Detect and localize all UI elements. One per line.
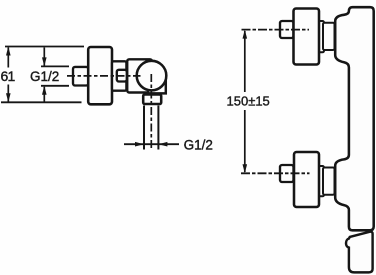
handle knob circle xyxy=(137,61,167,91)
svg-text:150±15: 150±15 xyxy=(227,94,270,109)
G1/2 arrow bottom shaft xyxy=(43,87,45,102)
dim 61 top extension line xyxy=(5,46,84,48)
bottom neck xyxy=(323,168,335,195)
inlet fitting (side view) xyxy=(73,67,88,86)
valve body (side view) xyxy=(127,59,152,92)
dim 150 line upper segment xyxy=(244,31,246,92)
temperature knob (front view) xyxy=(346,232,373,273)
svg-text:G1/2: G1/2 xyxy=(30,69,59,84)
outlet nut xyxy=(143,95,161,105)
dim 150 arrow down xyxy=(243,164,248,173)
outlet pipe right line xyxy=(157,106,159,150)
dim arrow left-pointing xyxy=(158,142,167,147)
outlet vertical centerline xyxy=(150,74,152,150)
adapter square xyxy=(117,70,127,82)
dim 61 arrow down xyxy=(6,93,11,102)
shower mixer body bar (front view) xyxy=(335,7,374,230)
bottom union block xyxy=(294,152,319,207)
svg-text:G1/2: G1/2 xyxy=(184,138,213,153)
dim 61 line upper segment xyxy=(7,48,9,68)
bottom centerline right view xyxy=(241,172,310,174)
connector piece xyxy=(112,61,126,90)
G1/2 upper extension line xyxy=(41,65,69,67)
top fitting (front view) xyxy=(280,21,294,38)
top collar xyxy=(318,21,324,52)
G1/2 arrow top shaft xyxy=(43,48,45,66)
top centerline right view xyxy=(242,29,310,31)
dim 150 line lower segment xyxy=(244,110,246,172)
elbow under circle xyxy=(148,78,166,93)
dim arrow right-pointing xyxy=(135,142,144,147)
horizontal centerline left view xyxy=(67,75,141,77)
wall plate (side view) xyxy=(88,47,112,104)
G1/2 arrow top head xyxy=(42,57,47,66)
bottom fitting (front view) xyxy=(280,165,294,182)
dim 61 line lower segment xyxy=(7,85,9,102)
dim G1/2 bottom line xyxy=(124,143,179,145)
dim 61 bottom extension line xyxy=(1,101,82,103)
top neck xyxy=(323,23,335,50)
G1/2 arrow bottom head xyxy=(42,86,47,95)
dim 61 arrow up xyxy=(6,47,11,56)
top union block xyxy=(294,9,320,65)
svg-text:61: 61 xyxy=(1,68,16,84)
outlet pipe left line xyxy=(143,106,145,150)
G1/2 lower extension line xyxy=(41,85,69,87)
bottom collar xyxy=(318,166,325,196)
dim 150 arrow up xyxy=(243,30,248,39)
